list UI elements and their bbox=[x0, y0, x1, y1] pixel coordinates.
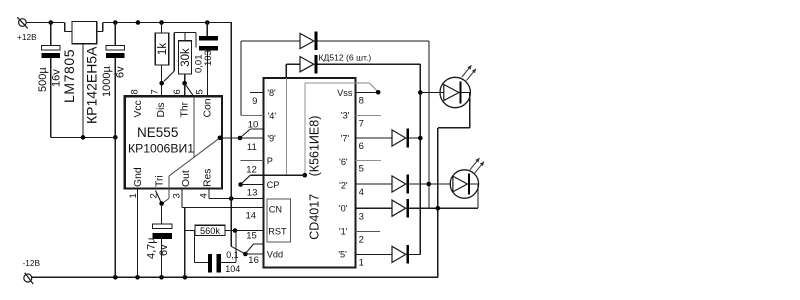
svg-text:5: 5 bbox=[195, 89, 206, 94]
svg-text:15: 15 bbox=[246, 231, 257, 242]
svg-text:Vcc: Vcc bbox=[133, 100, 144, 117]
svg-text:(К561ИЕ8): (К561ИЕ8) bbox=[307, 116, 321, 177]
svg-text:16v: 16v bbox=[50, 69, 62, 87]
svg-text:5: 5 bbox=[359, 164, 364, 175]
svg-text:8: 8 bbox=[359, 96, 364, 107]
svg-text:3: 3 bbox=[359, 211, 364, 222]
svg-text:'8': '8' bbox=[267, 88, 276, 98]
svg-text:LM7805: LM7805 bbox=[61, 49, 77, 103]
svg-text:Vss: Vss bbox=[337, 88, 353, 98]
svg-text:9: 9 bbox=[252, 96, 257, 107]
svg-text:'2': '2' bbox=[339, 180, 348, 190]
svg-text:CP: CP bbox=[267, 180, 280, 190]
svg-text:КР1006ВИ1: КР1006ВИ1 bbox=[128, 142, 194, 156]
svg-text:2: 2 bbox=[359, 235, 364, 246]
svg-text:P: P bbox=[267, 156, 273, 166]
svg-text:4: 4 bbox=[359, 187, 364, 198]
svg-text:RST: RST bbox=[268, 226, 287, 236]
svg-text:11: 11 bbox=[247, 142, 257, 153]
svg-text:8: 8 bbox=[129, 89, 140, 94]
svg-text:7: 7 bbox=[150, 89, 161, 94]
svg-text:-12В: -12В bbox=[23, 258, 41, 268]
svg-text:0,1: 0,1 bbox=[226, 250, 239, 260]
svg-text:CN: CN bbox=[269, 204, 282, 214]
svg-text:Con: Con bbox=[203, 98, 214, 117]
svg-text:Gnd: Gnd bbox=[133, 167, 144, 187]
svg-text:CD4017: CD4017 bbox=[307, 194, 321, 240]
svg-text:'5': '5' bbox=[338, 250, 347, 260]
svg-text:Vdd: Vdd bbox=[267, 249, 283, 259]
svg-text:14: 14 bbox=[246, 210, 257, 221]
svg-text:'7': '7' bbox=[341, 134, 350, 144]
svg-text:Tri: Tri bbox=[155, 175, 166, 187]
svg-text:+12В: +12В bbox=[17, 32, 37, 42]
svg-text:3: 3 bbox=[172, 193, 183, 198]
svg-text:Dis: Dis bbox=[156, 102, 167, 117]
svg-text:КР142ЕН5А: КР142ЕН5А bbox=[84, 46, 100, 124]
svg-text:'6': '6' bbox=[339, 157, 348, 167]
svg-text:6: 6 bbox=[359, 141, 364, 152]
svg-text:Thr: Thr bbox=[179, 101, 190, 117]
svg-text:6v: 6v bbox=[114, 66, 126, 78]
svg-text:1k: 1k bbox=[157, 43, 169, 55]
svg-text:'4': '4' bbox=[268, 111, 277, 121]
svg-text:4,7µ: 4,7µ bbox=[145, 237, 157, 259]
svg-text:104: 104 bbox=[225, 264, 240, 274]
svg-text:6v: 6v bbox=[158, 244, 170, 256]
svg-text:'9': '9' bbox=[267, 133, 276, 143]
svg-text:30k: 30k bbox=[180, 48, 192, 67]
svg-text:16: 16 bbox=[248, 255, 259, 266]
svg-text:1000µ: 1000µ bbox=[101, 66, 113, 97]
svg-text:Res: Res bbox=[203, 169, 214, 187]
svg-text:4: 4 bbox=[199, 193, 210, 198]
svg-text:7: 7 bbox=[359, 119, 364, 130]
svg-text:1: 1 bbox=[359, 258, 364, 269]
svg-text:'3': '3' bbox=[341, 111, 350, 121]
svg-text:12: 12 bbox=[246, 165, 257, 176]
svg-text:NE555: NE555 bbox=[137, 125, 178, 140]
svg-text:560k: 560k bbox=[200, 226, 220, 236]
svg-text:500µ: 500µ bbox=[37, 67, 49, 92]
svg-text:6: 6 bbox=[172, 89, 183, 94]
svg-text:Out: Out bbox=[181, 170, 192, 187]
svg-text:103: 103 bbox=[203, 50, 214, 66]
svg-text:'1': '1' bbox=[339, 226, 348, 236]
svg-text:'0': '0' bbox=[339, 203, 348, 213]
svg-text:КД512 (6 шт.): КД512 (6 шт.) bbox=[319, 53, 372, 63]
svg-text:13: 13 bbox=[247, 187, 258, 198]
